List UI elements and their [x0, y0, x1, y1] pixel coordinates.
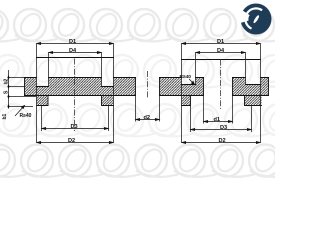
svg-text:R≥40: R≥40 [20, 113, 32, 119]
svg-text:D4: D4 [217, 48, 225, 54]
svg-text:d2: d2 [144, 115, 151, 121]
svg-text:D1: D1 [69, 39, 76, 45]
svg-text:d1: d1 [214, 117, 221, 123]
svg-text:R≥40: R≥40 [180, 74, 192, 80]
svg-text:b2: b2 [4, 78, 10, 84]
svg-text:D3: D3 [220, 125, 227, 131]
svg-text:D4: D4 [69, 48, 77, 54]
svg-text:b1: b1 [2, 113, 8, 119]
svg-text:D2: D2 [219, 138, 226, 144]
svg-text:D2: D2 [68, 138, 75, 144]
svg-text:D1: D1 [217, 39, 224, 45]
svg-text:D3: D3 [71, 124, 78, 130]
